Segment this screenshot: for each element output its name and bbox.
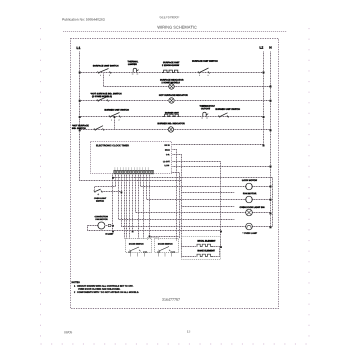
- lamp DS4 oven door light: [246, 209, 253, 216]
- node N label: [270, 46, 272, 48]
- wire rail 4 burner circuit: [80, 116, 264, 118]
- wire rail 2 surface indicator: [104, 86, 271, 88]
- switch S1 surface unit switch: [98, 69, 112, 77]
- junction N rail3: [270, 100, 272, 102]
- junction clock N: [270, 166, 272, 168]
- label S3 hot surface indicator switch: [91, 93, 122, 98]
- junction broil node: [220, 246, 222, 248]
- wire pin k1 L1 feed: [115, 174, 117, 187]
- wire L2 bus: [263, 52, 265, 145]
- wire lock motor to N: [253, 186, 271, 188]
- label DS4 oven door light switch: [240, 207, 265, 209]
- resistor burner element: [163, 114, 180, 116]
- footer page number: [187, 331, 190, 333]
- wire oven lamp to N: [253, 226, 273, 228]
- bake broil enclosure: [182, 237, 221, 260]
- pin label BK: [165, 145, 170, 146]
- page edge left: [40, 28, 42, 344]
- wire rail 5 burner indicator: [80, 129, 271, 131]
- junction rail4 drop top: [114, 116, 116, 118]
- electronic clock timer U1: [91, 142, 172, 174]
- door switch SW2 box: [155, 239, 179, 253]
- wire fan motor return: [88, 226, 221, 231]
- label surface unit element value: [162, 62, 179, 66]
- wire pin k10 lock motor feed: [141, 174, 246, 187]
- wire pin k2 stub rail: [119, 174, 235, 220]
- junction clock L2: [263, 145, 265, 147]
- wire door switch link: [148, 238, 159, 241]
- schematic border frame: [71, 39, 279, 309]
- junction L1 rail3: [79, 100, 81, 102]
- door switch SW1 pins: [131, 253, 145, 257]
- lamp DS2 hot surface indicator: [169, 98, 174, 103]
- wire pin k8 door light feed: [136, 174, 246, 213]
- wire strip common rail A: [113, 178, 273, 227]
- page edge bottom: [41, 343, 310, 345]
- pin label L2 IN: [165, 165, 169, 166]
- wire N bus: [270, 52, 272, 227]
- thermal limiter TL2: [201, 112, 208, 118]
- node L2 label: [260, 46, 263, 48]
- resistor bake element: [182, 248, 220, 257]
- switch S4 burner unit switch: [109, 113, 121, 121]
- wire clock aux to door switch 2: [172, 173, 180, 239]
- wire door light to N: [253, 212, 271, 214]
- footer date: [64, 331, 72, 333]
- wire pin k11 to door switch: [143, 174, 145, 239]
- resistor surface unit element: [162, 70, 179, 72]
- label bake element: [198, 250, 215, 252]
- wire fan motor to fuse: [105, 225, 113, 227]
- wire rail 1 surface unit circuit: [80, 72, 264, 74]
- wire pin k7 element rail drop: [132, 174, 134, 231]
- junction L1 rail5: [79, 129, 81, 131]
- wire pin k4 stub: [124, 174, 126, 239]
- lamp DS5 oven lamp: [246, 223, 253, 230]
- label S6 hot surface switch: [72, 125, 89, 129]
- junction k3 oven light return: [121, 192, 123, 194]
- label U1 electronic clock timer: [96, 145, 129, 147]
- wire clock C to elements: [173, 155, 182, 257]
- wire rail 3 hot surface indicator: [80, 100, 271, 102]
- label M1 convection fan: [95, 216, 108, 220]
- wire stub right A: [182, 192, 235, 194]
- label S7 oven light switch: [94, 198, 106, 202]
- junction L1 rail1: [79, 72, 81, 74]
- wire stub right B: [182, 206, 235, 208]
- header rule: [63, 31, 287, 33]
- junction k13 broil feed: [149, 236, 151, 238]
- label DS2 hot surface indicator: [159, 94, 188, 96]
- label S2 surface unit switch: [192, 60, 217, 62]
- wire pin k0 convection fan return: [112, 174, 114, 231]
- label DS1 surface indicator: [160, 79, 183, 83]
- label TL1 thermal limiter: [128, 61, 139, 65]
- junction k0 fan top: [112, 225, 114, 227]
- wire rail4 drop to rail5: [114, 119, 116, 130]
- motor M3 oven fan: [246, 196, 253, 203]
- wire L1 bus: [80, 52, 182, 181]
- wire fan to N: [253, 199, 271, 201]
- fuse F1 fan thermal fuse: [108, 224, 111, 226]
- wire clock L2 to bus: [173, 144, 264, 146]
- note 1 line 2: [78, 288, 120, 290]
- junction k0 fan bottom: [112, 231, 114, 233]
- label F1 fan fuse: [106, 233, 114, 234]
- junction N rail2: [270, 86, 272, 88]
- junction oven lamp N: [270, 226, 272, 228]
- wire S1 drop to rail2: [103, 74, 105, 87]
- door switch SW2 pins: [159, 253, 172, 257]
- wire clock N to bus: [173, 166, 271, 168]
- junction L2 rail4: [263, 116, 265, 118]
- wire oven light switch return: [103, 191, 122, 193]
- connector P1 clock timer strip: [114, 167, 154, 174]
- note 1: [74, 285, 133, 287]
- lamp DS3 burner indicator: [168, 127, 173, 132]
- switch S6 hot surface switch: [94, 126, 104, 131]
- switch S5 burner unit switch right: [219, 113, 229, 118]
- junction door light N: [270, 213, 272, 215]
- thermal limiter TL1: [132, 68, 139, 74]
- title publication number: [62, 18, 104, 21]
- title wiring schematic: [157, 26, 196, 29]
- resistor broil element: [182, 244, 221, 246]
- junction rail A k0: [112, 177, 114, 179]
- notes heading: [72, 281, 80, 283]
- pin label DB: [165, 149, 170, 150]
- label TL2 thermostat: [200, 105, 215, 109]
- switch S2 surface unit switch right: [198, 68, 210, 76]
- label burner element value: [165, 112, 179, 113]
- pin label L1 OUT: [163, 161, 170, 162]
- node L1 label: [77, 47, 81, 49]
- lamp DS1 surface indicator: [169, 84, 174, 89]
- motor M1 convection fan: [98, 222, 105, 229]
- junction k7 element rail: [132, 231, 134, 233]
- label S4 burner unit switch: [105, 109, 129, 111]
- door switch SW1 box: [126, 239, 152, 253]
- label M2 lock motor: [242, 180, 257, 182]
- junction N rail5: [270, 129, 272, 131]
- wire pin k12 fan motor feed: [147, 174, 246, 200]
- switch S7 oven light switch: [94, 189, 103, 195]
- wire pin k5 stub: [126, 174, 128, 239]
- note 2: [74, 291, 139, 293]
- label DS3 burner indicator: [158, 123, 185, 125]
- pin label C: [166, 154, 169, 155]
- wire pin k9 to door switch: [138, 174, 140, 239]
- title model number: [160, 16, 180, 18]
- label M3 oven fan: [243, 193, 256, 195]
- page edge right: [308, 28, 310, 344]
- junction L1 rail4: [79, 116, 81, 118]
- label S1 surface unit switch: [93, 65, 118, 67]
- junction fan N: [270, 199, 272, 201]
- label DS5 oven lamp: [243, 232, 258, 234]
- wire oven light switch branch: [95, 187, 116, 191]
- wire clock DB to door switch 2: [173, 150, 177, 241]
- switch S3 hot surface indicator switch: [97, 97, 109, 102]
- wire pin k6 to door switch: [129, 174, 131, 239]
- wire clock L1 OUT to element node: [173, 162, 221, 247]
- motor M2 lock motor: [246, 183, 253, 190]
- label broil element: [198, 240, 216, 242]
- junction lock motor N: [270, 186, 272, 188]
- part number: [162, 298, 180, 301]
- junction element node: [220, 231, 222, 233]
- label S5 burner unit switch: [216, 108, 240, 110]
- wire pin k13 broil feed: [150, 174, 180, 237]
- wire pin k3 oven lamp feed: [122, 174, 246, 227]
- junction L2 rail1: [263, 72, 265, 74]
